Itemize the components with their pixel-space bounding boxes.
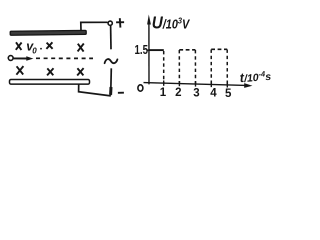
svg-text:1: 1 [160, 87, 167, 99]
field mark X row1 b [46, 42, 52, 49]
wire ink blob [109, 87, 112, 95]
pulse 3 right edge (dashed) [226, 50, 228, 85]
wire AC source to bottom [110, 68, 113, 95]
capacitor top plate [10, 30, 86, 35]
origin label 0 [138, 85, 143, 91]
plus sign [116, 18, 124, 27]
pulse 3 left edge (dashed) [210, 50, 212, 85]
graph y-axis [147, 15, 151, 85]
wire top plate to positive terminal [81, 22, 108, 31]
pulse 3 top (dashed) [211, 48, 227, 50]
label v0 [26, 40, 42, 56]
field mark X row1 c [78, 44, 84, 52]
x tick 3 [195, 81, 197, 86]
pulse 2 top (dashed) [179, 49, 195, 51]
wire terminal to AC source [110, 25, 112, 49]
x tick 5 [226, 82, 228, 87]
wire bottom to bottom plate [79, 84, 111, 96]
field mark X row2 c [77, 68, 83, 75]
particle source circle [8, 56, 13, 61]
svg-text:3: 3 [193, 87, 199, 99]
capacitor bottom plate [10, 80, 90, 85]
node positive terminal circle [108, 21, 112, 25]
svg-text:5: 5 [225, 88, 232, 100]
pulse 1 right edge (dashed) [163, 51, 165, 83]
field mark X row2 a [16, 66, 23, 75]
dashed beam axis [36, 57, 93, 59]
svg-text:4: 4 [210, 88, 217, 100]
svg-text:2: 2 [175, 87, 181, 99]
field mark X row1 a [16, 42, 22, 50]
field mark X row2 b [47, 68, 53, 75]
pulse 2 right edge (dashed) [194, 50, 196, 84]
minus sign [118, 92, 124, 94]
tick 1.5 [147, 49, 152, 51]
svg-text:0: 0 [32, 47, 37, 56]
velocity arrow v0 [13, 56, 33, 60]
AC source U1 (~) [105, 59, 118, 63]
x tick 2 [178, 81, 180, 86]
x tick 1 [163, 81, 165, 86]
graph x-axis [144, 83, 253, 88]
pulse 2 left edge (dashed) [178, 50, 180, 83]
svg-text:1.5: 1.5 [135, 42, 149, 57]
x tick 4 [210, 82, 212, 87]
pulse 1 top (solid) [149, 49, 164, 51]
